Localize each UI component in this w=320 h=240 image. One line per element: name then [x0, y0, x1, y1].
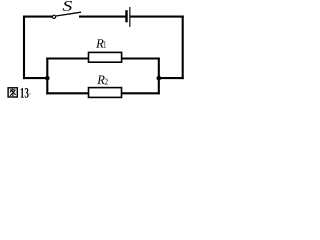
small dot after 13: [29, 93, 30, 94]
node junction dot right: [157, 76, 162, 81]
figure caption glyph 图 (drawn): [8, 88, 17, 97]
wire parallel-block right vertical: [158, 58, 160, 95]
node junction dot left: [45, 76, 50, 81]
figure caption number 13: [21, 88, 29, 98]
resistor R2 box: [89, 88, 122, 98]
wire parallel-block left vertical: [46, 58, 48, 95]
switch label S: [63, 1, 72, 11]
wire bottom-left rail: [23, 77, 47, 79]
resistor R1 box: [89, 52, 122, 62]
wire top-middle segment: [79, 16, 125, 18]
resistor label R2: [97, 76, 105, 85]
battery negative plate (short thick): [125, 10, 127, 22]
wire right vertical: [182, 16, 184, 80]
wire top-right segment: [130, 16, 183, 18]
wire left vertical: [23, 16, 25, 80]
battery positive plate (long thin): [129, 7, 131, 27]
wire top-left segment: [23, 16, 52, 18]
wire R1 branch left lead: [46, 57, 89, 59]
wire bottom-right rail: [159, 77, 184, 79]
wire R1 branch right lead: [122, 57, 160, 59]
wire R2 branch left lead: [46, 92, 89, 94]
wire R2 branch right lead: [122, 92, 160, 94]
switch S pivot circle: [52, 15, 55, 18]
resistor label R1: [96, 39, 104, 47]
switch S blade: [56, 12, 81, 16]
